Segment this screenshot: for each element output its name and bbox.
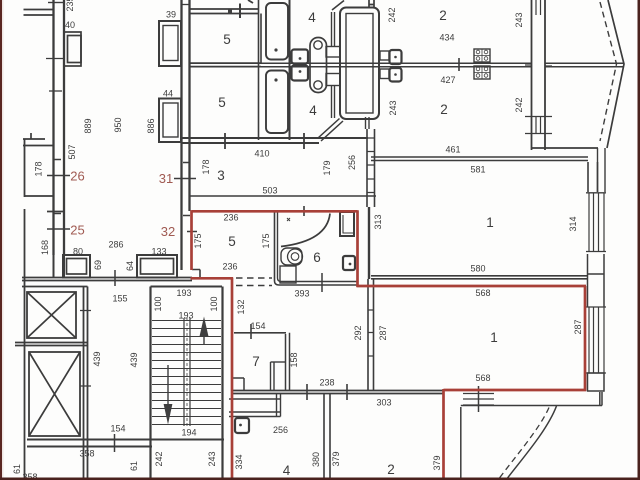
svg-text:581: 581 (470, 165, 485, 175)
svg-text:40: 40 (65, 20, 75, 30)
wall bay bottom horizontal (532, 147, 599, 149)
svg-text:461: 461 (445, 145, 460, 155)
svg-text:80: 80 (73, 247, 83, 257)
svg-text:178: 178 (201, 159, 211, 174)
node tick room7 top (250, 324, 252, 339)
svg-text:236: 236 (223, 213, 238, 223)
wall corridor east double (182, 0, 190, 270)
svg-text:158: 158 (289, 352, 299, 367)
wire dashed opening upper (236, 277, 272, 279)
svg-text:2: 2 (439, 8, 447, 23)
wall corridor bottom double (22, 278, 192, 281)
svg-text:132: 132 (236, 299, 246, 314)
wall rooms5 east double (259, 0, 262, 140)
component closet cupboard (340, 8, 379, 120)
svg-text:64: 64 (125, 261, 135, 271)
wall neighbor west vertical (24, 139, 26, 480)
svg-text:3: 3 (217, 168, 225, 183)
wire balcony arc dashed (498, 408, 549, 480)
svg-text:243: 243 (514, 12, 524, 27)
wall room3 bottom line (190, 195, 376, 197)
wire riser H stub (369, 0, 374, 8)
svg-text:4: 4 (309, 103, 317, 118)
wall niche 40 (64, 32, 81, 66)
node tick x304 on wall (303, 133, 305, 149)
svg-text:6: 6 (313, 250, 321, 265)
svg-text:179: 179 (322, 160, 332, 175)
component radiator grid lower (474, 66, 490, 79)
wire red vertical stairs side (231, 278, 234, 480)
wall shaft niche 44 (159, 99, 181, 143)
svg-text:427: 427 (440, 75, 455, 85)
svg-text:503: 503 (262, 186, 277, 196)
svg-text:31: 31 (159, 171, 173, 186)
wire red left room5 (190, 210, 193, 270)
svg-text:236: 236 (222, 262, 237, 272)
wall pocket y399 (229, 398, 281, 400)
svg-text:7: 7 (252, 354, 260, 369)
svg-text:5: 5 (218, 95, 226, 110)
svg-text:5: 5 (223, 32, 231, 47)
component stub rect sink upper (326, 47, 340, 58)
wall upper right double x531-545 (525, 0, 552, 150)
wire red mid horizontal (357, 285, 587, 288)
wall room5 top double (190, 9, 258, 14)
svg-text:580: 580 (470, 264, 485, 274)
wall notch box at red corner (192, 270, 200, 279)
wire red right vertical (584, 286, 587, 391)
node door 32 ticks (183, 216, 197, 232)
wall room7 top (234, 332, 286, 334)
node door 25 ticks (47, 214, 70, 230)
wall bath6 left divider (275, 211, 358, 285)
wall left corridor west double (48, 0, 64, 255)
component elevator shaft small (27, 292, 76, 338)
svg-text:889: 889 (83, 118, 93, 133)
wire bay window dashed (600, 2, 617, 141)
wire red vertical room2 (442, 389, 445, 480)
svg-text:303: 303 (376, 398, 391, 408)
component toilet tanks unit (310, 38, 327, 93)
node door 31 ticks (174, 163, 196, 179)
svg-text:155: 155 (112, 294, 127, 304)
svg-text:2: 2 (440, 102, 448, 117)
svg-text:439: 439 (129, 352, 139, 367)
svg-text:178: 178 (34, 161, 44, 176)
wire red apartment boundary (191, 210, 587, 480)
svg-text:5: 5 (228, 234, 236, 249)
component stub rect sink lower (326, 74, 340, 86)
component stair stringers (184, 318, 190, 426)
component shower curve (281, 214, 330, 247)
svg-text:4: 4 (308, 10, 316, 25)
svg-text:568: 568 (475, 288, 490, 298)
component toilet bath6 (281, 248, 303, 265)
component door stub right (380, 51, 389, 60)
svg-text:886: 886 (146, 118, 156, 133)
svg-text:256: 256 (347, 155, 357, 170)
component vent square room4 (235, 418, 249, 433)
wire axis party line (190, 63, 624, 67)
wall jog below room7 (229, 394, 281, 417)
wall room1 upper top double (371, 157, 588, 161)
node tick corridor bottom x115 (114, 270, 116, 286)
component heater square bath6 (343, 256, 355, 270)
wall staircase enclosure (151, 287, 223, 480)
component door stub right lower (380, 69, 389, 79)
svg-text:175: 175 (193, 233, 203, 248)
wall neighbor H lines (23, 133, 54, 146)
component door post square lower (390, 68, 402, 82)
svg-text:286: 286 (108, 240, 123, 250)
component wc squares pair (292, 50, 309, 81)
wall bath right single (368, 207, 370, 279)
wall room1 right window block (586, 148, 606, 391)
wire bay window solid (607, 0, 624, 148)
svg-text:314: 314 (568, 216, 578, 231)
wall between rooms 5 (190, 63, 261, 67)
wire red bottom horizontal (444, 389, 587, 392)
svg-text:243: 243 (207, 451, 217, 466)
svg-text:950: 950 (113, 117, 123, 132)
wire balcony arc solid (506, 406, 557, 480)
svg-text:313: 313 (373, 214, 383, 229)
svg-text:26: 26 (70, 169, 84, 184)
wall bottom main y390 double (232, 391, 443, 394)
component stair treads (152, 321, 221, 425)
component door post square upper (390, 50, 402, 64)
wall shaft room7 (271, 362, 286, 390)
component stair arrow up (200, 317, 209, 345)
wall neighbor below (47, 211, 64, 213)
svg-text:243: 243 (388, 100, 398, 115)
wall chamfer double (318, 119, 343, 142)
wall lobby east double (80, 287, 91, 480)
node tick x225 on wall (224, 133, 226, 149)
svg-text:242: 242 (387, 7, 397, 22)
svg-text:154: 154 (110, 424, 125, 434)
wall between elevators (15, 343, 88, 346)
wall balcony top (461, 405, 602, 407)
svg-text:434: 434 (439, 33, 454, 43)
svg-text:242: 242 (154, 451, 164, 466)
wall shaft niche 39 (159, 21, 181, 66)
svg-text:168: 168 (40, 240, 50, 255)
component bathtub lower (266, 71, 288, 134)
wire window sill top-left (24, 10, 54, 16)
svg-text:287: 287 (573, 319, 583, 334)
component bathtub upper (266, 3, 288, 60)
wall balcony left (460, 407, 462, 480)
svg-text:1: 1 (490, 330, 498, 345)
node door tick room5 top (182, 0, 253, 18)
svg-text:358: 358 (79, 449, 94, 459)
svg-text:379: 379 (331, 451, 341, 466)
wall bath divider (289, 0, 291, 140)
component washbasin bath6 (340, 212, 354, 236)
svg-text:238: 238 (319, 378, 334, 388)
svg-text:1: 1 (486, 215, 494, 230)
svg-text:292: 292 (353, 325, 363, 340)
wall neighbor room bottom (25, 195, 54, 197)
wire red top room5 (192, 210, 358, 213)
wire tick left wall a (46, 58, 64, 60)
svg-text:256: 256 (273, 425, 288, 435)
wire tick left wall b (49, 90, 62, 92)
component radiator grid upper (474, 49, 490, 62)
svg-text:439: 439 (92, 351, 102, 366)
svg-text:242: 242 (514, 97, 524, 112)
svg-text:379: 379 (432, 455, 442, 470)
wall room4 room2 divider double (324, 394, 330, 480)
svg-text:507: 507 (67, 144, 77, 159)
component tray bath6 (280, 266, 296, 283)
svg-text:69: 69 (93, 260, 103, 270)
svg-text:380: 380 (311, 452, 321, 467)
wall main horizontal y140 double (182, 138, 369, 143)
svg-text:193: 193 (176, 288, 191, 298)
wall lobby bottom double (27, 434, 224, 452)
svg-text:100: 100 (209, 296, 219, 311)
wall corridor bottom niches row (54, 255, 178, 278)
svg-text:100: 100 (153, 296, 163, 311)
svg-text:235: 235 (65, 0, 75, 12)
wire dashed opening lower (236, 285, 272, 287)
svg-text:44: 44 (163, 89, 173, 99)
svg-text:133: 133 (151, 247, 166, 257)
node tick x304 red top (303, 206, 305, 216)
node tick axis x459 (458, 58, 460, 71)
svg-text:410: 410 (254, 149, 269, 159)
svg-text:32: 32 (161, 224, 175, 239)
svg-text:2: 2 (387, 462, 395, 477)
svg-text:39: 39 (166, 10, 176, 20)
svg-text:4: 4 (283, 463, 291, 478)
wall step near red (233, 378, 244, 390)
wire red bottom left (191, 277, 234, 280)
wall wc east segments (332, 1, 345, 119)
svg-text:334: 334 (234, 454, 244, 469)
svg-text:568: 568 (475, 373, 490, 383)
svg-text:175: 175 (261, 233, 271, 248)
component window in wall y395 (463, 386, 494, 412)
wall balcony right stub (600, 392, 602, 406)
svg-text:61: 61 (129, 461, 139, 471)
wall room7 right double (286, 333, 290, 390)
wall room1 lower left double (368, 279, 374, 391)
node ticks on y390 wall (307, 384, 347, 400)
wall room1 upper bottom double (371, 276, 587, 279)
component elevator shaft large (29, 352, 80, 436)
svg-text:194: 194 (181, 428, 196, 438)
component stair arrow down (164, 365, 173, 425)
svg-text:25: 25 (70, 223, 84, 238)
wire red bath right (356, 210, 359, 287)
svg-text:61: 61 (12, 464, 22, 474)
wall elevator lobby top (22, 286, 88, 288)
svg-text:154: 154 (250, 321, 265, 331)
node door 26 ticks (47, 160, 70, 176)
svg-text:287: 287 (378, 325, 388, 340)
node tick bath6 bottom (321, 273, 323, 292)
wall hatched x367-374 (366, 117, 375, 207)
svg-text:393: 393 (294, 289, 309, 299)
svg-text:193: 193 (178, 311, 193, 321)
